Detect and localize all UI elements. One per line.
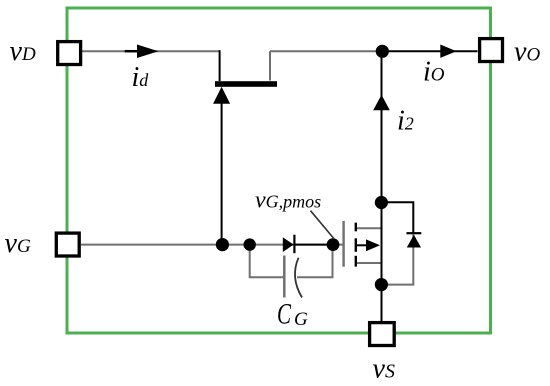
svg-text:iO: iO bbox=[423, 57, 445, 88]
svg-text:C: C bbox=[277, 298, 291, 330]
svg-text:vG: vG bbox=[5, 228, 31, 259]
svg-text:G: G bbox=[294, 309, 308, 330]
svg-text:i2: i2 bbox=[397, 106, 414, 137]
svg-text:vD: vD bbox=[10, 36, 36, 67]
svg-text:vO: vO bbox=[514, 37, 540, 68]
svg-text:id: id bbox=[132, 62, 150, 93]
svg-text:vS: vS bbox=[373, 354, 395, 385]
svg-text:vG,pmos: vG,pmos bbox=[255, 188, 321, 214]
